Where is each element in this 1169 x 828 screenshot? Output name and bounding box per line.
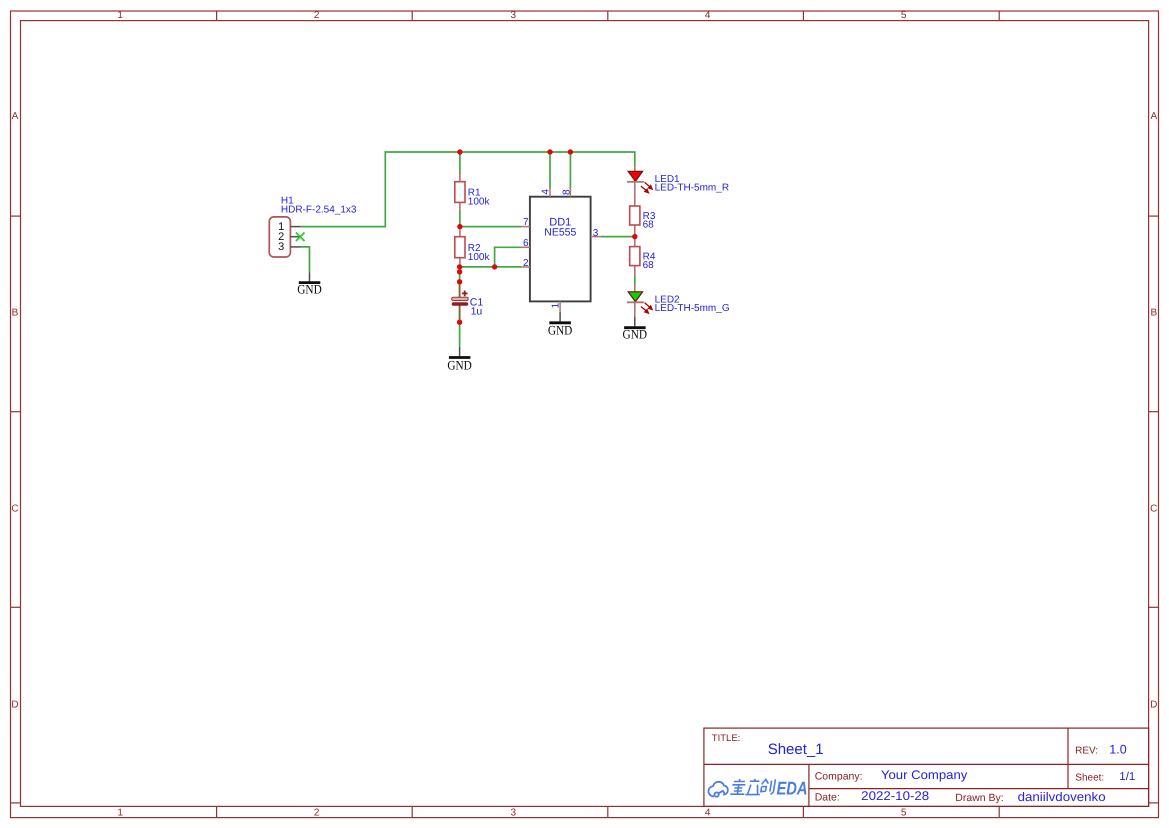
junction rail-R1 — [457, 149, 462, 154]
ground GND at C1 — [447, 347, 472, 373]
wire R1 to R2 node — [459, 211, 461, 227]
wire rail to R1 — [459, 152, 461, 174]
wire H1 pin3 to GND — [301, 247, 310, 272]
svg-text:C: C — [1150, 503, 1157, 514]
wire R4 to LED2 — [634, 276, 636, 286]
LED2 green — [627, 285, 730, 317]
svg-text:REV:: REV: — [1075, 746, 1098, 757]
frame row ticks left — [11, 216, 21, 803]
svg-text:4: 4 — [541, 189, 552, 195]
svg-text:LED-TH-5mm_R: LED-TH-5mm_R — [655, 183, 729, 194]
svg-text:1: 1 — [117, 807, 123, 818]
svg-text:7: 7 — [523, 217, 529, 228]
logo cloud icon — [708, 782, 727, 797]
svg-text:2: 2 — [314, 10, 320, 21]
resistor R1 — [455, 172, 491, 211]
DD1 labels — [544, 216, 576, 238]
capacitor C1 — [452, 282, 484, 322]
DD1 pin numbers — [523, 189, 599, 309]
connector H1 pin stubs — [290, 227, 300, 247]
svg-text:D: D — [1150, 700, 1157, 711]
svg-text:Date:: Date: — [815, 791, 840, 803]
svg-text:1: 1 — [551, 302, 562, 308]
svg-text:GND: GND — [297, 281, 322, 296]
svg-text:Drawn By:: Drawn By: — [955, 792, 1003, 804]
wire H1 pin1 to rail — [301, 226, 386, 228]
DD1 pin stubs — [521, 189, 601, 312]
svg-text:GND: GND — [548, 323, 573, 338]
title block frame — [704, 728, 1149, 806]
svg-text:3: 3 — [278, 241, 284, 253]
svg-text:68: 68 — [643, 220, 655, 231]
junction R1-R2-pin7 — [457, 224, 462, 229]
resistor R3 — [630, 182, 656, 237]
frame row letters right — [1150, 111, 1157, 711]
wire rail to pin8 — [569, 152, 571, 189]
svg-text:4: 4 — [705, 807, 711, 818]
svg-text:2: 2 — [314, 807, 320, 818]
svg-text:3: 3 — [511, 10, 517, 21]
junction pin6-pin2 wire — [492, 264, 497, 269]
svg-text:1.0: 1.0 — [1109, 743, 1126, 757]
wire R2 bottom to C1 — [459, 267, 461, 282]
no-connect X on H1 pin2 — [296, 233, 305, 242]
svg-text:NE555: NE555 — [544, 226, 576, 238]
svg-text:A: A — [12, 111, 19, 122]
junction R2-pin2 — [457, 264, 462, 269]
svg-text:6: 6 — [523, 238, 529, 249]
junction C1 bottom node — [457, 320, 462, 325]
svg-text:D: D — [11, 700, 18, 711]
svg-text:1u: 1u — [471, 306, 483, 318]
svg-text:Your Company: Your Company — [881, 768, 968, 782]
wire VCC top rail — [385, 152, 635, 227]
connector H1 labels — [281, 196, 357, 216]
svg-text:1: 1 — [117, 10, 123, 21]
junction rail-pin8 — [568, 149, 573, 154]
ground GND at LED2 — [623, 317, 648, 342]
LED1 red — [627, 167, 729, 194]
svg-text:LED-TH-5mm_G: LED-TH-5mm_G — [655, 303, 730, 314]
svg-text:A: A — [1150, 111, 1157, 122]
wire rail to pin4 — [549, 152, 551, 189]
ground GND at H1 — [297, 272, 322, 296]
svg-text:5: 5 — [901, 10, 907, 21]
resistor R4 — [630, 237, 656, 277]
svg-text:TITLE:: TITLE: — [712, 733, 741, 744]
frame column ticks bottom — [217, 806, 1000, 817]
svg-text:100k: 100k — [468, 196, 491, 207]
svg-text:HDR-F-2.54_1x3: HDR-F-2.54_1x3 — [281, 205, 357, 216]
svg-text:Sheet:: Sheet: — [1075, 772, 1104, 783]
svg-text:5: 5 — [901, 807, 907, 818]
junction node below R2 — [457, 269, 462, 274]
svg-text:B: B — [1150, 307, 1157, 318]
ground GND at DD1 — [548, 312, 573, 338]
svg-text:GND: GND — [447, 357, 472, 372]
svg-text:B: B — [12, 307, 19, 318]
svg-text:3: 3 — [593, 228, 599, 239]
svg-text:GND: GND — [623, 327, 648, 342]
svg-text:3: 3 — [511, 807, 517, 818]
svg-text:2: 2 — [523, 258, 529, 269]
svg-text:4: 4 — [705, 10, 711, 21]
wire C1 bottom to GND — [459, 322, 461, 347]
connector H1 pin digits — [278, 221, 284, 253]
svg-text:8: 8 — [561, 189, 572, 195]
wire pin6 branch — [495, 247, 522, 267]
wire node to pin7 — [460, 226, 521, 228]
svg-text:EDA: EDA — [777, 777, 808, 798]
svg-text:68: 68 — [643, 260, 655, 271]
frame row letters left — [11, 111, 18, 711]
wire pin2 to R2 bottom — [460, 266, 522, 268]
logo CJK glyph chuang — [760, 779, 775, 794]
IC DD1 NE555 body — [530, 197, 591, 302]
svg-text:100k: 100k — [468, 252, 491, 263]
svg-text:daniilvdovenko: daniilvdovenko — [1018, 790, 1106, 804]
junction C1 top node — [457, 279, 462, 284]
logo CJK glyph li — [745, 779, 762, 795]
junction rail-pin4 — [547, 149, 552, 154]
svg-text:2022-10-28: 2022-10-28 — [861, 789, 929, 803]
frame row ticks right — [1149, 216, 1159, 803]
svg-text:C: C — [11, 503, 18, 514]
logo CJK glyph jia — [730, 779, 746, 794]
frame column ticks top — [217, 11, 1000, 21]
connector H1 body — [269, 217, 290, 257]
wire pin3 to R3/R4 node — [601, 236, 635, 238]
svg-text:Sheet_1: Sheet_1 — [768, 741, 824, 758]
junction R3-R4-pin3 — [632, 234, 637, 239]
frame column numbers bottom — [117, 807, 907, 818]
frame column numbers top — [117, 10, 907, 21]
svg-text:1/1: 1/1 — [1119, 771, 1135, 783]
resistor R2 — [455, 227, 491, 267]
svg-text:Company:: Company: — [815, 770, 863, 782]
